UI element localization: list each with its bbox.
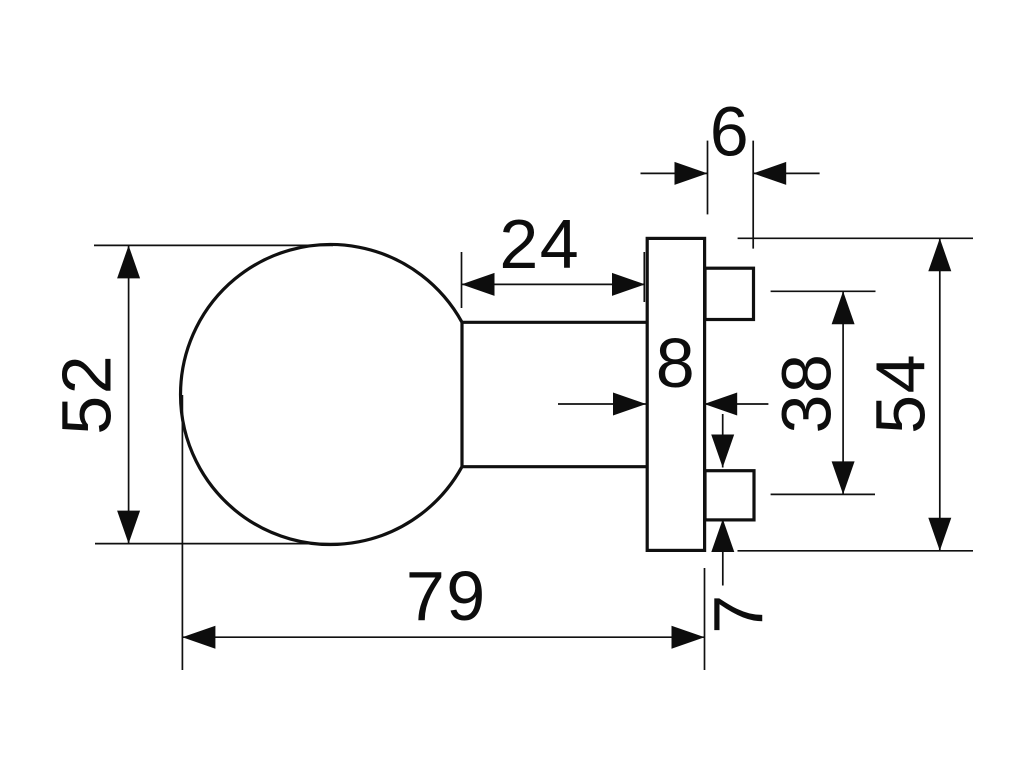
svg-text:54: 54 [862,353,940,434]
svg-text:38: 38 [768,353,846,434]
svg-text:7: 7 [699,593,777,633]
svg-text:52: 52 [47,354,125,435]
svg-text:6: 6 [710,93,750,171]
svg-text:79: 79 [406,557,487,635]
svg-text:8: 8 [656,324,696,402]
svg-text:24: 24 [499,205,580,283]
